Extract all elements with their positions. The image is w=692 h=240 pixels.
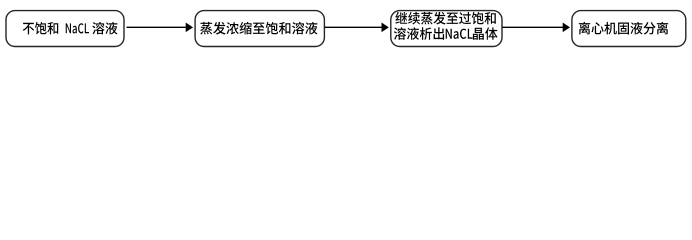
label text: 蒸发浓缩至饱和溶液: [200, 22, 317, 35]
label text line 2: 溶液析出NaCL晶体: [394, 27, 498, 40]
flow step box 2 (rounded rectangle): [195, 11, 324, 47]
label text: 离心机固液分离: [579, 22, 668, 35]
label text: 不饱和NaCL溶液: [23, 22, 118, 35]
flow step box 3 (rounded rectangle): [391, 11, 502, 47]
arrow 2: box2 to box3: [325, 23, 389, 32]
flow step box 1 (rounded rectangle): [6, 11, 124, 47]
flow step box 4 (rounded rectangle): [572, 11, 686, 47]
label text line 1: 继续蒸发至过饱和: [395, 12, 495, 25]
arrow 3: box3 to box4: [502, 23, 569, 32]
arrow 1: box1 to box2: [127, 23, 193, 32]
